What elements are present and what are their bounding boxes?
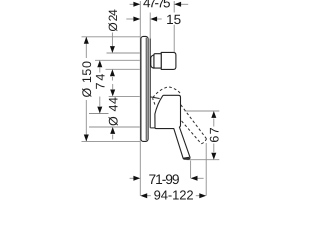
svg-text:15: 15 (166, 12, 181, 27)
svg-text:Ø 44: Ø 44 (106, 97, 120, 126)
dim line Ø44 vertical segments (112, 84, 114, 89)
stub outer cylinder (161, 52, 176, 69)
dashed body left edge (raised) (153, 98, 155, 104)
wall plate (escutcheon side view) (141, 36, 148, 141)
svg-text:74: 74 (93, 74, 107, 90)
sleeve front line x=150.2 (149, 39, 151, 128)
Ø150 bottom arrow (points down) (84, 135, 89, 142)
dashed body top arc (raised) (153, 87, 182, 98)
extension line y=141.4 (plate bottom, to left) (82, 140, 141, 142)
dashed lever right edge (raised) (181, 105, 207, 139)
extension y=113.5 (lever axis) (89, 113, 109, 115)
47-75 right arrow (outside, points left) (174, 2, 181, 7)
47-75 left arrow (outside, points right) (133, 2, 140, 7)
dashed outline: handle in raised position (153, 87, 207, 144)
dim line Ø150 vertical segments (85, 37, 87, 58)
dashed lever end cap (raised) (201, 139, 206, 144)
Ø44 top arrow (points down at y96.4) (110, 90, 115, 97)
extension y=69.3 (stub bottom) (106, 68, 140, 70)
plate inner edge line (145, 38, 147, 141)
extension y=159.7 (lever tip) (187, 159, 220, 161)
svg-text:47-75: 47-75 (143, 0, 171, 10)
15 left arrow (points right at x140.3) (133, 17, 140, 22)
94-122 left arrow (inside, points left) (140, 193, 147, 198)
extension y=60.3 (stub axis) (95, 59, 140, 61)
Ø24 top arrow (points down at y53) (110, 46, 115, 53)
svg-text:71-99: 71-99 (148, 172, 179, 187)
body rear step / sleeve cap top edge (150, 97, 159, 99)
extension line x=174.2 (top, to stub) (173, 1, 175, 13)
svg-text:67: 67 (207, 127, 221, 142)
Ø150 top arrow (points up) (84, 37, 89, 44)
74 top arrow (points up at y60.3) (97, 60, 102, 67)
extension y=127 (body bottom) (89, 126, 140, 128)
dim line 74 vertical segments (99, 68, 101, 73)
extension line x=140 full height (139, 1, 141, 196)
svg-text:Ø 150: Ø 150 (80, 61, 94, 98)
svg-text:94-122: 94-122 (154, 187, 194, 200)
stub flange (151, 55, 154, 68)
extension x=190.6 (lever tip down) (190, 161, 192, 179)
extension y=53 (stub top) (107, 52, 140, 54)
handle body + lever (solid) (155, 95, 190, 159)
arrows (solid black) (84, 2, 217, 198)
dim line 71-99 tails (130, 177, 135, 179)
94-122 right arrow (inside, points right) (199, 193, 206, 198)
71-99 right arrow (outside, points left) (191, 176, 198, 181)
15 right arrow (points left at x150.2) (150, 17, 157, 22)
stub mid cylinder (154, 54, 161, 68)
technical dimension drawing of concealed single-lever shower mixer (side view) (0, 0, 300, 200)
dim line 67 vertical segments (213, 119, 215, 127)
dimension texts (80, 0, 222, 203)
extension line y=36.8 (plate top, to left) (82, 36, 141, 38)
extension line x=150.2 (15 dim, to flange top) (149, 13, 151, 40)
parts (white fill, dark outline) (141, 36, 190, 159)
extension y=111 (67 top) (185, 110, 220, 112)
71-99 left arrow (outside, points right) (133, 176, 140, 181)
dim line 94-122 tails (147, 195, 151, 197)
lever end cap (thick) (184, 157, 190, 160)
extension y=96.4 (sleeve top) (109, 95, 140, 97)
Ø24 bottom arrow (points up at y69.3) (110, 69, 115, 76)
74 bottom arrow (points down at y113.5) (97, 107, 102, 114)
67 bottom arrow (points down at y159.7) (211, 153, 216, 160)
Ø44 bottom arrow (points up at y127) (110, 127, 115, 134)
67 top arrow (points up at y111) (211, 111, 216, 118)
dim line 47-75 tails (130, 3, 135, 5)
dashed lever left edge (raised) (178, 117, 201, 144)
svg-text:Ø 24: Ø 24 (106, 9, 120, 32)
dim line Ø24 vertical segments (111, 33, 113, 47)
dim line 15 tails (126, 18, 134, 20)
extension x=206.2 (dashed lever tip down) (205, 143, 207, 196)
